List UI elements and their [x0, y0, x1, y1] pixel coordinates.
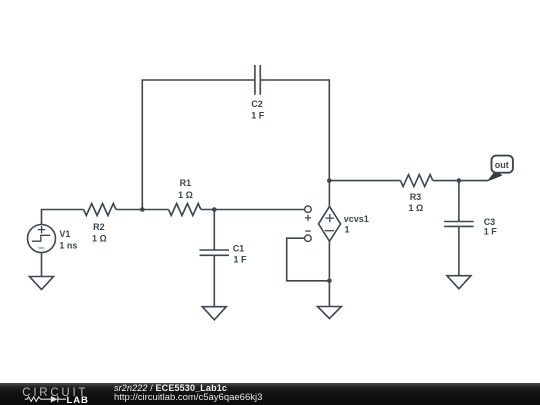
svg-text:R3: R3	[410, 192, 422, 202]
vcvs plus marker	[305, 215, 311, 221]
vcvs minus marker	[305, 230, 311, 232]
vcvs1 diamond	[319, 206, 341, 241]
wire feedback left vertical	[142, 80, 255, 210]
vcvs minus control terminal	[305, 235, 312, 242]
svg-text:1 Ω: 1 Ω	[92, 234, 107, 244]
capacitor C3	[444, 222, 474, 227]
logo diode arrow	[51, 396, 58, 403]
circuitlab logo	[0, 383, 110, 405]
svg-text:1: 1	[345, 225, 350, 235]
wire node C to R3	[329, 180, 400, 182]
ground below C1	[202, 307, 226, 320]
node B junction	[212, 207, 217, 212]
svg-text:1 F: 1 F	[251, 111, 265, 121]
resistor R1	[169, 204, 201, 216]
vcvs plus sign	[325, 214, 334, 222]
wire node B to C1	[213, 210, 215, 251]
vcvs minus sign	[325, 230, 334, 232]
footer bar	[0, 383, 540, 405]
voltage source V1	[28, 225, 56, 253]
svg-text:C1: C1	[233, 244, 245, 254]
footer url line	[114, 392, 262, 403]
wire R3 to node D	[433, 180, 489, 182]
svg-text:C3: C3	[484, 217, 496, 227]
svg-text:1 ns: 1 ns	[59, 241, 77, 251]
V1 minus sign	[38, 247, 44, 249]
resistor R3	[400, 175, 432, 187]
ground below vcvs	[317, 307, 341, 319]
wire node D to C3	[458, 181, 460, 222]
svg-text:LAB: LAB	[67, 395, 89, 405]
V1 step waveform	[32, 235, 50, 241]
capacitor C2	[255, 65, 260, 95]
svg-text:1 F: 1 F	[484, 227, 498, 237]
ground below V1	[30, 277, 54, 290]
wire minus terminal loop to vcvs bottom	[287, 238, 330, 281]
ground below C3	[447, 276, 471, 289]
wire C3 to ground	[458, 226, 460, 275]
resistor R2	[84, 204, 116, 216]
V1 plus sign	[38, 226, 45, 233]
wire node E to ground	[328, 281, 330, 307]
svg-text:out: out	[495, 160, 509, 170]
wire vcvs bottom to node E	[328, 241, 330, 280]
svg-text:1 F: 1 F	[234, 254, 248, 264]
wire R2 to R1	[116, 209, 169, 211]
svg-text:1 Ω: 1 Ω	[178, 190, 193, 200]
logo resistor zigzag and diode bar	[25, 396, 66, 402]
node C junction	[327, 178, 332, 183]
vcvs plus control terminal	[305, 206, 312, 213]
svg-text:V1: V1	[59, 229, 70, 239]
node E junction	[327, 279, 332, 284]
wire V1 bottom to ground	[41, 253, 43, 277]
out flag pointer	[487, 171, 503, 182]
capacitor C1	[200, 250, 230, 255]
out flag box	[492, 156, 513, 173]
node D junction	[457, 178, 462, 183]
svg-text:vcvs1: vcvs1	[344, 214, 369, 224]
svg-text:R2: R2	[93, 222, 105, 232]
wire C1 to ground	[213, 255, 215, 306]
footer title line	[114, 383, 227, 393]
wire R1 to vcvs plus terminal	[201, 209, 305, 211]
svg-text:C2: C2	[251, 99, 263, 109]
node A junction	[140, 207, 145, 212]
wire V1 top to main wire	[42, 210, 84, 225]
wire vcvs top to node C	[328, 181, 330, 207]
svg-text:1 Ω: 1 Ω	[409, 203, 424, 213]
wire C2 to node C	[260, 80, 329, 181]
svg-text:R1: R1	[180, 178, 192, 188]
